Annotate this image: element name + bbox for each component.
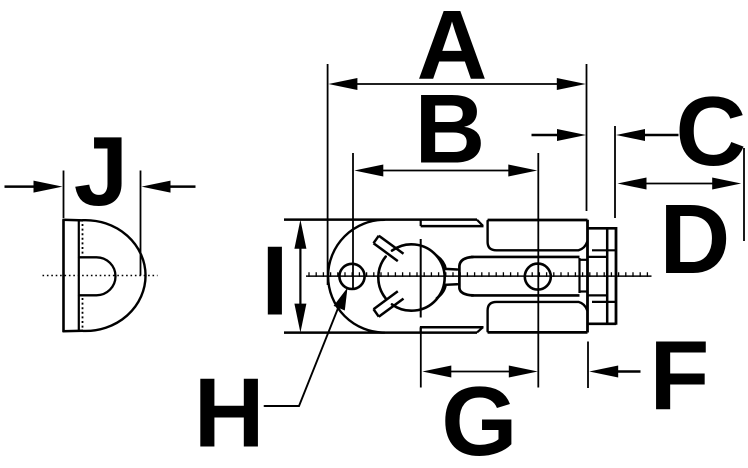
dimension D right extension line — [743, 148, 745, 241]
dimension G line — [450, 371, 510, 373]
dimension I down arrowhead — [294, 304, 306, 333]
dimension B left arrowhead — [354, 165, 383, 177]
dimension I line shaft — [299, 248, 301, 304]
main view centerline with ticks — [306, 275, 652, 277]
leader line from H to pivot hole — [265, 305, 340, 407]
inner tongue rounded left end — [459, 257, 473, 295]
dimension A left arrowhead — [328, 78, 357, 90]
end cap bore bottom line — [588, 294, 608, 296]
end cap inner vertical — [606, 228, 609, 323]
dimension C tail line — [645, 134, 679, 137]
tongue right end vertical — [578, 258, 580, 293]
end cap right edge — [615, 227, 618, 325]
end cap bore top line — [588, 256, 608, 258]
svg-text:H: H — [194, 358, 265, 468]
inner tongue top edge — [471, 256, 580, 259]
part bottom edge and I bottom extension line — [284, 331, 477, 334]
body right face — [586, 220, 589, 333]
lower slanted tab end cap — [374, 309, 379, 317]
end cap bottom edge — [588, 322, 617, 325]
dimension C right arrowhead pointing left — [616, 129, 645, 141]
svg-text:I: I — [261, 226, 288, 336]
dimension C right extension line shared with D — [614, 126, 616, 218]
dimension B left extension line — [352, 153, 354, 290]
left end large arc — [328, 220, 384, 333]
dimension G left extension line — [420, 326, 422, 388]
dimension D right arrowhead — [712, 178, 741, 190]
dimension J right arrowhead — [142, 181, 171, 193]
dimension D line — [645, 183, 713, 185]
leader arrowhead at pivot hole — [334, 288, 348, 311]
top chamfer at collar step — [477, 220, 483, 226]
tongue step bottom line — [580, 290, 588, 292]
end cap slot top line — [592, 249, 616, 251]
dimension G left arrowhead pointing left — [422, 366, 451, 378]
collar step bottom vertical — [420, 327, 422, 332]
dome flange knurl dots lower — [82, 298, 84, 329]
collar rear top edge — [421, 225, 484, 228]
dimension I up arrowhead — [294, 220, 306, 249]
dimension F arrowhead pointing left — [589, 366, 618, 378]
end cap slot bottom line — [592, 301, 616, 303]
svg-text:J: J — [74, 116, 129, 226]
dimension F extension line — [587, 342, 589, 389]
upper slanted tab slot lower edge — [374, 243, 398, 261]
inner tongue bottom edge — [471, 294, 580, 297]
dimension J left arrowhead — [34, 181, 63, 193]
dimension J right extension line — [140, 171, 142, 276]
dimension A left extension line — [327, 64, 329, 285]
centerline of dome view — [43, 275, 158, 277]
dimension B right arrowhead — [508, 165, 537, 177]
dimension G right arrowhead pointing right — [509, 366, 538, 378]
upper prong outline — [488, 221, 588, 250]
upper slanted tab end cap — [374, 236, 379, 244]
lower prong outline — [488, 302, 588, 332]
dimension C left arrow tail — [532, 134, 559, 137]
dimension J right arrow tail — [170, 185, 196, 188]
svg-text:D: D — [660, 184, 731, 294]
lower prong bottom edge — [488, 331, 588, 334]
dimension J left arrow tail — [5, 185, 36, 188]
collar shoulder vertical edge — [420, 239, 422, 318]
lower slanted tab slot lower edge — [379, 299, 404, 317]
retainer ring main arc — [392, 244, 445, 310]
dome bottom edge — [63, 329, 84, 332]
pivot hole H — [339, 264, 364, 289]
upper neck funnel curve — [437, 256, 458, 270]
dome inner half-round boss — [79, 257, 116, 295]
cross pin hole right — [525, 264, 551, 290]
dome flange inner line — [78, 220, 80, 330]
dimension J left extension line — [63, 171, 65, 219]
dimension A line — [356, 83, 558, 85]
svg-text:B: B — [415, 74, 486, 184]
upper slanted tab slot upper edge — [379, 236, 404, 254]
bottom chamfer at collar step — [477, 327, 483, 332]
svg-text:C: C — [676, 76, 747, 186]
part top edge and I top extension line — [284, 218, 477, 221]
collar rear bottom edge — [421, 326, 484, 329]
svg-text:F: F — [650, 320, 710, 430]
dimension A right arrowhead — [557, 78, 586, 90]
lower neck funnel curve — [437, 284, 458, 298]
dimension F arrow tail — [618, 370, 641, 373]
dimension D left arrowhead — [618, 178, 647, 190]
dimension A right extension line shared with C — [586, 64, 588, 211]
end cap top edge — [588, 227, 617, 230]
tongue step top line — [580, 259, 588, 261]
dome outer flat left edge — [62, 219, 65, 332]
dimension B right extension line shared with G — [537, 153, 539, 388]
dome top edge — [63, 219, 84, 222]
lower slanted tab slot upper edge — [374, 291, 398, 309]
dome outer arc — [83, 220, 146, 331]
upper prong top edge — [488, 219, 588, 222]
retainer ring left arc segment — [378, 257, 385, 299]
dimension B line — [382, 170, 509, 172]
collar step top vertical — [420, 220, 422, 227]
dimension C left arrowhead pointing right — [557, 129, 586, 141]
dome flange knurl dots upper — [82, 224, 84, 254]
svg-text:G: G — [441, 366, 517, 468]
